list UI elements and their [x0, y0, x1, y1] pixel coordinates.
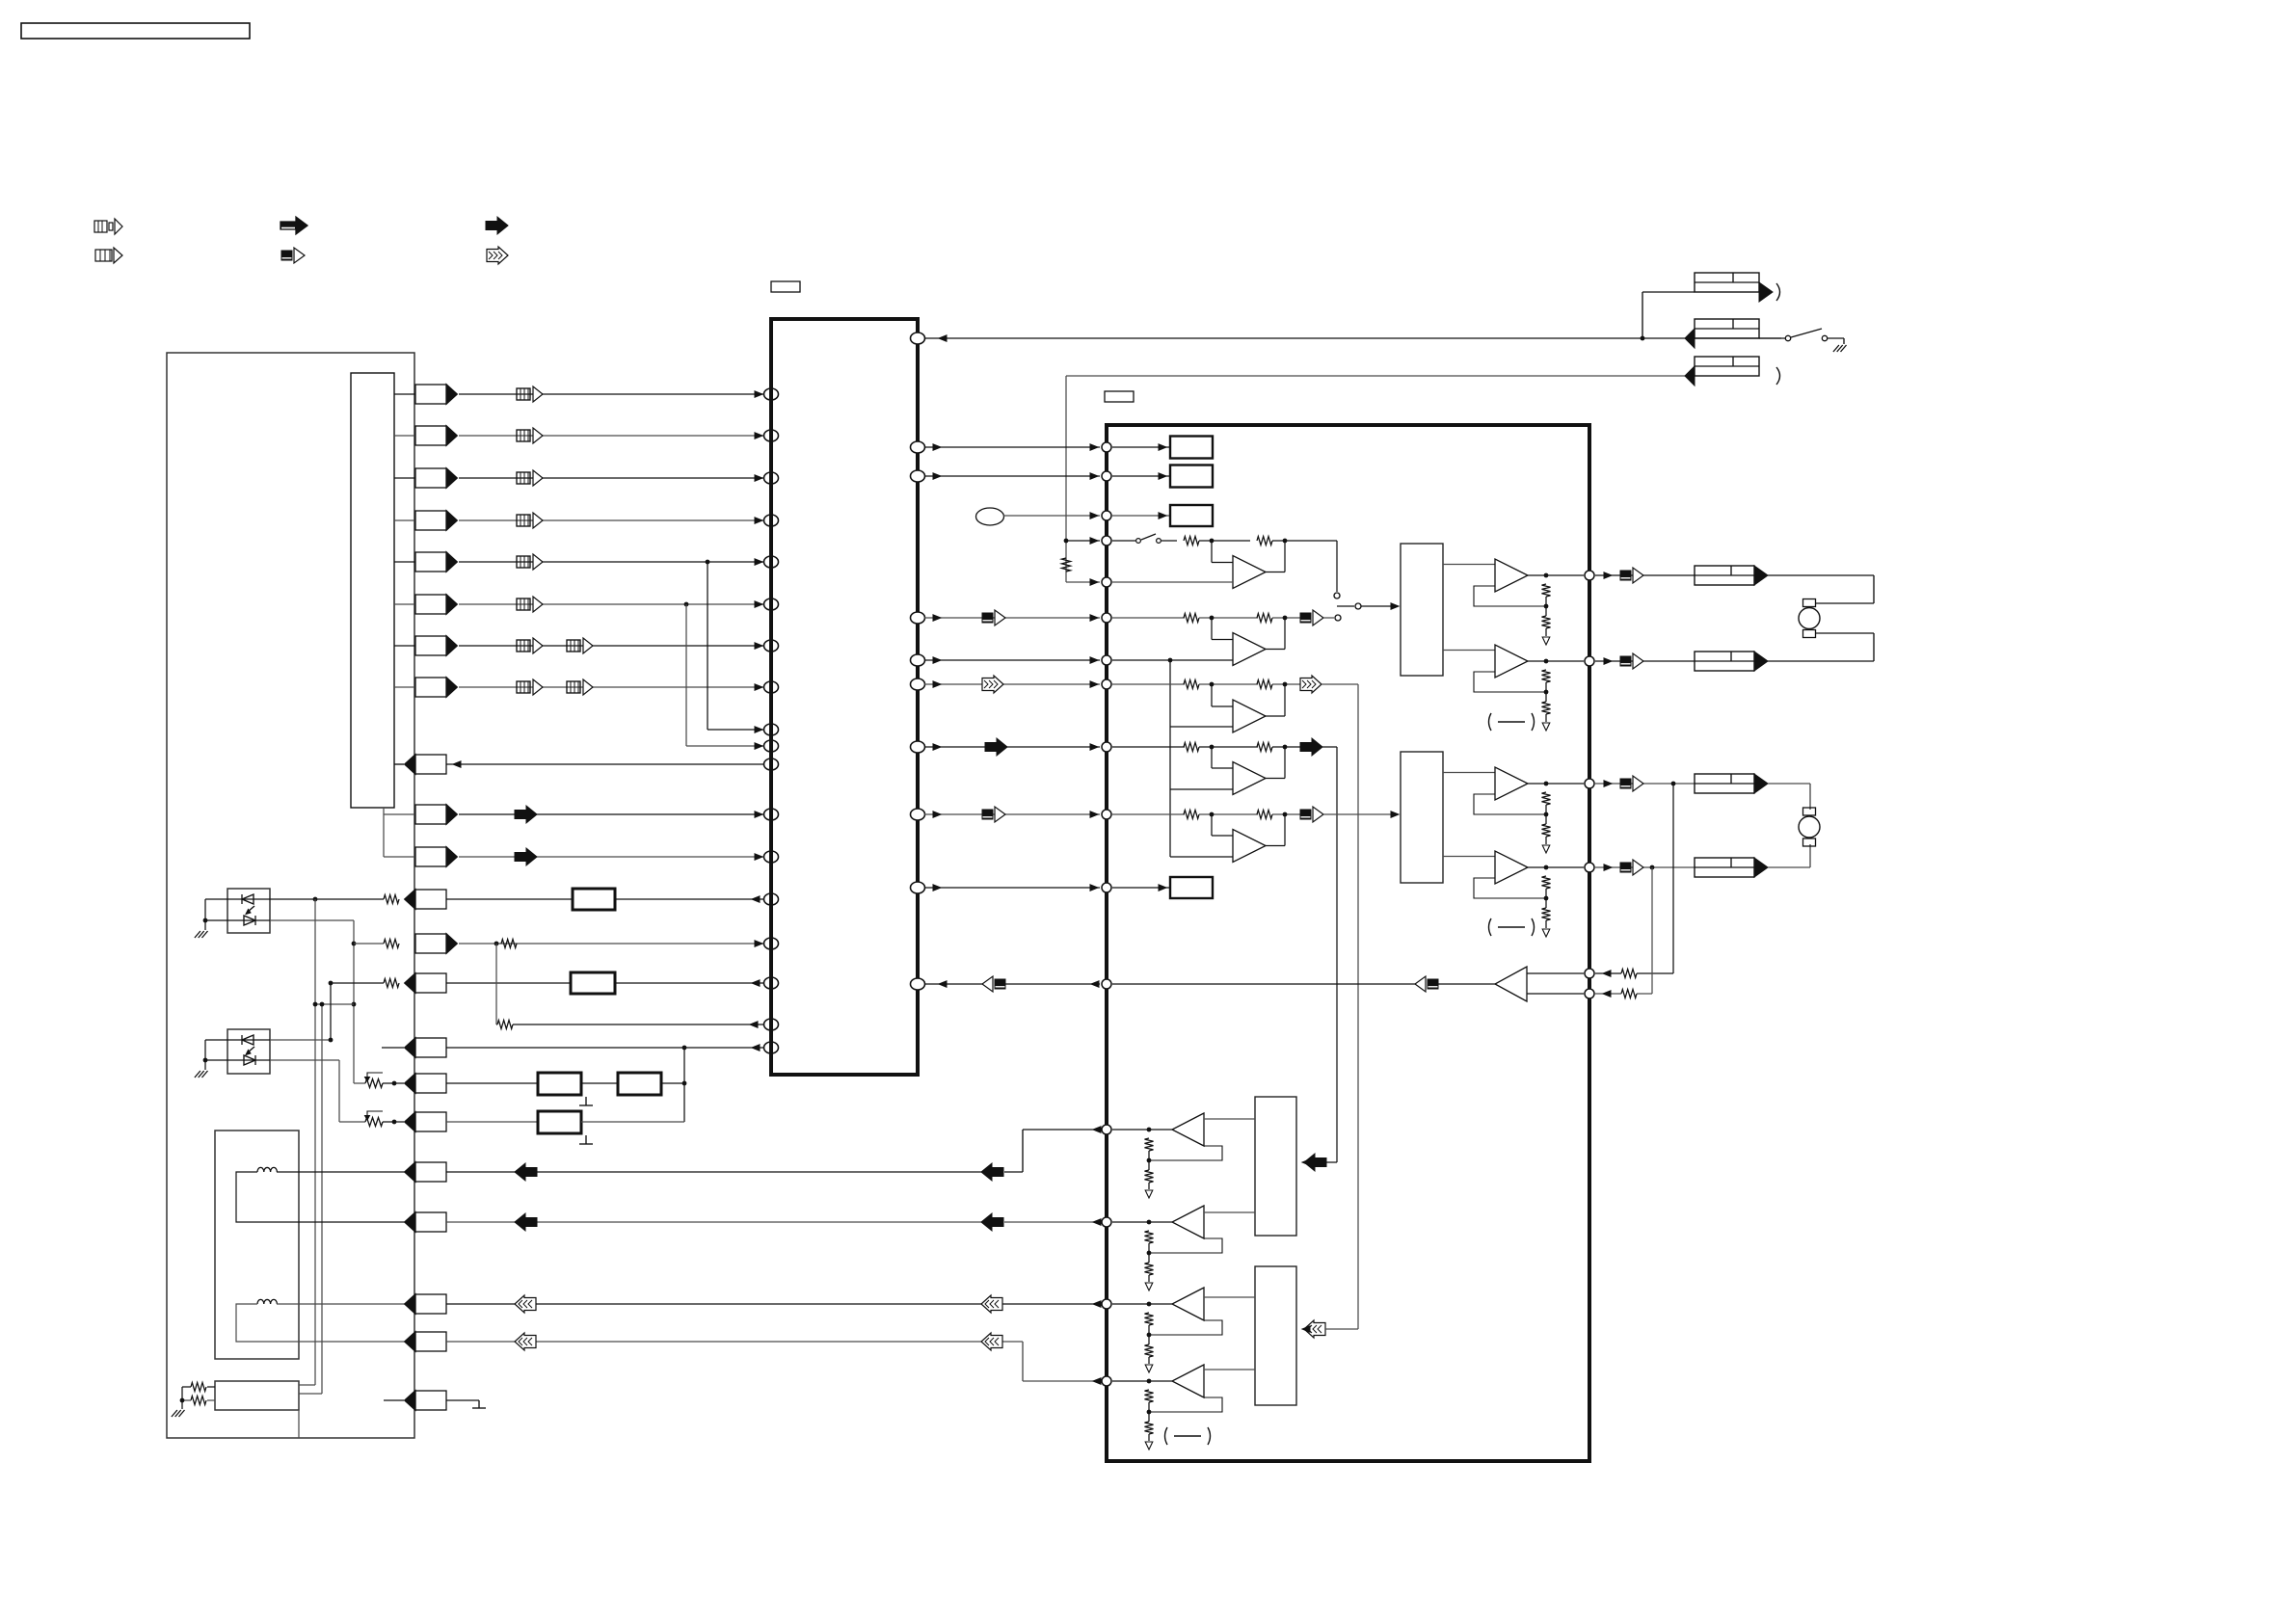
spindle-sled unit outline [215, 1131, 299, 1359]
IC601 right pin DAC [911, 809, 925, 820]
signal arrow cellD [1300, 738, 1322, 756]
wire U2B out [1528, 659, 1584, 664]
wire CN1 pin 5 stub [394, 561, 415, 563]
wire U4D out [1112, 1379, 1172, 1384]
contact node A1 [1334, 593, 1340, 599]
ground D2 [195, 1060, 208, 1078]
wire selC in [1302, 1159, 1337, 1165]
signal arrow (ribbon) row 4 [517, 513, 543, 528]
switch S1 [1759, 329, 1844, 341]
op-amp U1D [1212, 747, 1285, 795]
wire MC1 row [1003, 513, 1100, 519]
feedback loop U2D [1474, 878, 1546, 898]
wire PCM row [924, 744, 1100, 750]
jack J7 [1695, 858, 1768, 877]
legend outlined black arrow symbol [280, 217, 307, 234]
signal arrow (ribbon) row 8 [517, 679, 543, 695]
jack J3 (line) [1685, 357, 1780, 386]
IC601 left pin 15 [764, 938, 779, 949]
wire CN1 pin 6 stub [394, 603, 415, 605]
legend blackbox-arrow symbol [281, 248, 305, 263]
photo sensor D1 LED [242, 894, 254, 904]
wire U4B div [1147, 1243, 1152, 1263]
wire selA out1 [1443, 564, 1495, 566]
feedback loop U2A [1474, 586, 1546, 606]
block REG3 [1170, 505, 1213, 526]
wire BEEP to IC601 [1005, 983, 1100, 985]
resistor U4A fb [1145, 1138, 1154, 1151]
wire reset row stub [394, 763, 404, 765]
gnd arrow U2C [1542, 845, 1550, 853]
wire U4A out [1112, 1128, 1172, 1132]
coil L1 [257, 1167, 277, 1172]
IC602 ref label box [1105, 391, 1134, 402]
connector CN1 pin 3 box [415, 468, 458, 489]
wire cellE to sel2 [1323, 811, 1399, 817]
wire CN1 pin 4 to IC601 [459, 518, 764, 523]
op-amp U2C [1495, 767, 1528, 800]
resistor U4C fb [1145, 1313, 1154, 1325]
resistor U2D fb [1542, 876, 1551, 889]
op-amp U1A [1212, 541, 1285, 589]
wire U4C out [1112, 1302, 1172, 1307]
IC602 pin AOUT [1102, 679, 1111, 689]
reference label (bottom) [1165, 1427, 1211, 1445]
connector CN2 pin 2 box [415, 847, 458, 867]
resistor R204 [1184, 614, 1199, 623]
wire CN1 pin 7 to IC601 [459, 643, 764, 649]
resonator X101 [538, 1073, 581, 1095]
wire J4 to motor [1768, 575, 1874, 603]
wire cellC in [1112, 683, 1185, 685]
IC601 right pin CLK [911, 470, 925, 482]
wire U2A out [1528, 573, 1584, 578]
wire DAC row [924, 811, 1100, 817]
wire cellE mid [1199, 812, 1258, 817]
wire U2A div2 [1545, 628, 1547, 636]
IC602 pin PCM [1102, 742, 1111, 752]
wire D2 through bottom [227, 1059, 270, 1061]
wire CN1 pin 5 to IC601 [459, 559, 764, 565]
wire row 1063 [496, 944, 764, 1029]
wire D2 through top [227, 1039, 270, 1041]
wire U2C out [1528, 782, 1584, 786]
resistor R211 [1257, 811, 1272, 819]
wire U2C div2 [1545, 837, 1547, 844]
resistor U2C div [1542, 824, 1551, 837]
gnd arrow U2B [1542, 723, 1550, 731]
signal arrow motor2+ inner [981, 1213, 1003, 1231]
IC602 pin SW2 [1102, 577, 1111, 587]
wire D1 through bottom [227, 919, 270, 921]
wire D1 out bottom to bus [270, 920, 356, 1083]
junction trimmer 2 [392, 1120, 397, 1125]
resistor U2D div [1542, 908, 1551, 920]
wire row 1020 filter to connector [446, 982, 571, 984]
wire D1 anode [203, 899, 227, 922]
wire cellA row [1199, 539, 1250, 544]
wire U4B div2 [1148, 1275, 1150, 1282]
wire CN1 pin 3 stub [394, 477, 415, 479]
IC601 right pin BEEP [911, 978, 925, 990]
resistor R206 [1184, 680, 1199, 689]
wire row 979 to IC601 [459, 940, 764, 948]
resistor U4B fb [1145, 1231, 1154, 1243]
IC601 right pin AIN [911, 612, 925, 624]
signal arrow (ribbon) row 1 [517, 386, 543, 402]
signal arrow cellB [1300, 610, 1323, 625]
connector CN1 pin 4 box [415, 511, 458, 531]
IC601 left pin 16 [764, 977, 779, 989]
jack J1 (remote) [1695, 273, 1780, 302]
IC601 right pin MUTE [911, 882, 925, 893]
wire cellE in [1112, 813, 1185, 815]
wire OUT4 to jack [1595, 865, 1695, 870]
signal arrow motor3 inner [981, 1295, 1002, 1313]
signal arrow OUT2 [1620, 653, 1643, 669]
IC602 pin OUT1 [1585, 571, 1594, 580]
mechanism unit bottom edge link [0, 0, 1, 1]
op-amp U4C [1172, 1288, 1204, 1320]
signal arrow OUT3 [1620, 776, 1643, 791]
wire VREF inside [1112, 658, 1233, 663]
wire reset row from IC601 [446, 761, 764, 767]
connector CN1 body [351, 373, 394, 808]
connector CN1 pin 7 box [415, 636, 458, 656]
gnd arrow U2A [1542, 637, 1550, 645]
wire VREF row [924, 657, 1100, 663]
IC602 pin U4B [1102, 1217, 1111, 1227]
wire row 1453 stub [384, 1399, 404, 1401]
feedback loop U4C [1149, 1320, 1222, 1335]
wire U4D top in [1204, 1369, 1255, 1370]
block REG4 [1170, 877, 1213, 898]
wire U4C div [1147, 1325, 1152, 1344]
wire trimmer 1 junction [383, 1082, 404, 1084]
motor M1 [1799, 599, 1820, 638]
wire row 1124 link [581, 1082, 618, 1084]
connector CN1 pin AUX box [405, 1038, 447, 1058]
connector CN1 pin 8 box [415, 678, 458, 698]
wire MIC inside [1112, 513, 1170, 519]
junction node row5 [706, 560, 710, 565]
photo sensor D1 arrow mark [246, 906, 254, 915]
wire cellD out [1272, 745, 1300, 750]
resistor R205 [1257, 614, 1272, 623]
IC601 right pin VREF [911, 654, 925, 666]
legend striped-arrow symbol 2 [95, 248, 122, 263]
resistor R105 [182, 1397, 215, 1405]
IC602 pin REG1 [1102, 442, 1111, 452]
wire cellB in [1112, 617, 1185, 619]
IC601 right pin AOUT [911, 678, 925, 690]
wire sensor bus hook [384, 808, 415, 857]
resistor U2B fb [1542, 670, 1551, 682]
IC602 pin OUT4 [1585, 863, 1594, 872]
signal arrow AOUT [982, 676, 1003, 693]
connector CN1 trim 2 box [405, 1112, 447, 1132]
connector CN1 pin 2 box [415, 426, 458, 446]
wire U4B out [1112, 1220, 1172, 1225]
wire D2 out bottom to bus [270, 1060, 339, 1122]
wire row604 inside [1112, 581, 1233, 583]
legend chevron arrow symbol [487, 247, 508, 264]
selector SW-C body [1255, 1097, 1296, 1236]
resistor U2A fb [1542, 584, 1551, 597]
wire row561 [1066, 538, 1100, 544]
wire D2 cathode [205, 1059, 227, 1061]
IC601 left pin 14 [764, 893, 779, 905]
IC602 pin U4D [1102, 1376, 1111, 1386]
IC602 pin AIN [1102, 613, 1111, 623]
IC601 left pin 2 [764, 430, 779, 441]
wire cellC riser [1322, 684, 1358, 1329]
IC602 pin DAC [1102, 810, 1111, 819]
wire U2D div2 [1545, 920, 1547, 928]
wire J5 to motor [1768, 633, 1874, 661]
IC601 body [771, 319, 918, 1075]
wire BEEP mid [1091, 981, 1415, 987]
wire row604 [1066, 579, 1100, 585]
mechanism unit outline [167, 353, 414, 1438]
resistor R210 [1184, 811, 1199, 819]
signal arrow solid small row 845 [515, 806, 537, 823]
block REG1 [1170, 437, 1213, 459]
wire cellB out [1272, 616, 1300, 621]
wire switch bottom [298, 1410, 300, 1438]
IC601 left pin 3 [764, 472, 779, 484]
jack J4 [1695, 566, 1768, 585]
wire selB out2 [1443, 856, 1495, 858]
junction trimmer 1 [392, 1081, 397, 1086]
connector CN3 pin2 box [405, 1212, 447, 1233]
photo sensor D2 photodiode [244, 1055, 255, 1065]
wire REG1 inside [1112, 444, 1170, 450]
filter CF102 [571, 972, 615, 994]
resistor U2B div [1542, 702, 1551, 714]
wire cellD mid [1199, 745, 1258, 750]
wire CN2 pin 1 to IC601 [459, 811, 764, 817]
trimmer VR2 [365, 1111, 384, 1127]
resonator X102 [618, 1073, 661, 1095]
signal arrow (ribbon) row 3 [517, 470, 543, 486]
motor M2 [1799, 808, 1820, 846]
gnd arrow U4D [1145, 1442, 1153, 1450]
resistor U4D fb [1145, 1390, 1154, 1402]
switch S3 pole [1337, 603, 1399, 609]
IC601 ref label box [771, 281, 800, 292]
wire VREF ladder [1170, 660, 1233, 857]
wire CN1 pin 6 to IC601 [459, 601, 764, 607]
connector CN1 trim 1 box [405, 1074, 447, 1094]
wire cellE out [1272, 812, 1300, 817]
wire cellD riser [1322, 747, 1337, 1162]
IC602 amplifier body [1107, 425, 1589, 1461]
IC601 left pin 5 [764, 556, 779, 568]
wire cellA out [1272, 539, 1337, 592]
op-amp U2D [1495, 851, 1528, 884]
legend striped-arrow symbol 1 [94, 219, 122, 234]
wire U4A div [1147, 1151, 1152, 1170]
connector CN1 pin TE box [415, 934, 458, 954]
wire OUT3 to jack [1595, 781, 1695, 786]
signal arrow OUT1 [1620, 568, 1643, 583]
connector CN1 pin 1 box [415, 385, 458, 405]
trimmer VR1 [365, 1073, 384, 1088]
reference label (lower) [1489, 918, 1535, 936]
resistor R213 [1621, 990, 1637, 998]
connector CN1 pin FE box [405, 890, 447, 910]
wire J6 to motor [1768, 784, 1810, 810]
resonator X103 gnd stub [579, 1135, 593, 1144]
IC601 left pin 18 [764, 1042, 779, 1053]
feedback loop U4B [1149, 1238, 1222, 1253]
wire CN1 pin 4 stub [394, 519, 415, 521]
IC602 pin BEEP [1102, 979, 1111, 989]
signal arrow motor1+ inner [981, 1163, 1003, 1181]
signal arrow cellC [1300, 676, 1322, 693]
bus wire v2 [313, 1002, 354, 1394]
ground switch block [172, 1410, 185, 1417]
wire cellC out [1272, 682, 1300, 687]
wire sense1 [1637, 784, 1673, 973]
junction node row6 [684, 602, 689, 607]
bus wire v3 [330, 983, 332, 1040]
wire L2 top [277, 1303, 415, 1305]
signal arrow OUT4 [1620, 860, 1643, 875]
IC602 pin U4A [1102, 1125, 1111, 1134]
resistor U4C div [1145, 1344, 1154, 1357]
wire OUT1 to jack [1595, 572, 1695, 578]
wire MUTE row [924, 885, 1100, 891]
wire U3 out [1438, 983, 1495, 985]
block REG2 [1170, 466, 1213, 488]
wire CN1 pin 2 to IC601 [459, 433, 764, 439]
signal arrow (ribbon) row 7 second [567, 638, 593, 653]
wire v1106 [1064, 376, 1069, 582]
wire row 1020 from IC601 [615, 980, 764, 986]
IC602 pin MIC [1102, 511, 1111, 520]
wire D2 anode [203, 1040, 227, 1062]
wire sense2 [1637, 867, 1652, 994]
wire row6 jog down [686, 604, 764, 749]
IC602 pin U4C [1102, 1299, 1111, 1309]
jack J2 (hold sw) [1685, 319, 1759, 348]
op-amp U4D [1172, 1365, 1204, 1397]
wire switch gnd [180, 1387, 185, 1409]
wire BEEP end [924, 981, 982, 987]
resistor R201 [1062, 558, 1071, 572]
op-amp U4B [1172, 1206, 1204, 1238]
connector CN2 pin 1 box [415, 805, 458, 825]
gnd arrow U4C [1145, 1365, 1153, 1372]
wire switch out2 [299, 1393, 322, 1395]
signal arrow BEEP [982, 976, 1005, 992]
ground D1 [195, 920, 208, 938]
gnd arrow U4A [1145, 1190, 1153, 1198]
wire CN1 pin 8 to IC601 [459, 684, 764, 690]
wire CN2 pin 2 to IC601 [459, 854, 764, 860]
resistor U2C fb [1542, 792, 1551, 805]
filter CF101 [573, 889, 615, 910]
IC601 left pin 10 [764, 740, 779, 752]
wire sense1 in [1595, 971, 1621, 976]
wire MUTE inside [1112, 885, 1170, 891]
IC601 left pin 1 [764, 388, 779, 400]
op-amp U1E [1212, 814, 1285, 863]
wire motor drive 1 [446, 1127, 1101, 1181]
IC602 pin FB1 [1585, 969, 1594, 978]
wire row 1124 out [661, 1081, 686, 1086]
IC601 left pin 9 [764, 724, 779, 735]
wire XRST row [924, 335, 1781, 341]
photo sensor D2 arrow mark [246, 1047, 254, 1055]
IC602 pin MUTE [1102, 883, 1111, 892]
wire motor drive 3 [446, 1295, 1101, 1313]
resistor U2A div [1542, 616, 1551, 628]
wire row 933 to filter [446, 898, 573, 900]
signal arrow cellE [1300, 807, 1323, 822]
gnd arrow U4B [1145, 1283, 1153, 1290]
signal arrow AIN [982, 610, 1005, 625]
connector CN4 box [405, 1391, 447, 1411]
wire switch out1 [299, 1384, 315, 1386]
wire U4A div2 [1148, 1183, 1150, 1189]
wire row5 jog down [707, 562, 764, 732]
IC601 left pin 7 [764, 640, 779, 652]
wire U2A div [1544, 597, 1549, 616]
legend solid arrow symbol [486, 217, 508, 234]
wire U4C top in [1204, 1296, 1255, 1298]
feedback loop U2C [1474, 794, 1546, 814]
feedback loop U4D [1149, 1397, 1222, 1412]
reference label (upper) [1489, 713, 1535, 731]
contact node B1 [1323, 615, 1341, 621]
wire cellB mid [1199, 616, 1258, 621]
wire D1 out top [270, 897, 384, 902]
connector CN3 pin4 box [405, 1332, 447, 1352]
wire cellD in [1112, 746, 1185, 748]
IC602 pin REG2 [1102, 471, 1111, 481]
IC602 pin VREF [1102, 655, 1111, 665]
signal arrow BEEP inner [1415, 976, 1438, 992]
op-amp U2B [1495, 645, 1528, 678]
resistor U4B div [1145, 1263, 1154, 1275]
wire D1 cathode [205, 919, 227, 921]
resistor R202 [1184, 537, 1199, 545]
wire U2B div [1544, 682, 1549, 702]
wire AIN row [924, 615, 1100, 621]
wire OUT2 to jack [1595, 658, 1695, 664]
photo sensor D2 LED [242, 1035, 254, 1045]
resistor R203 [1257, 537, 1272, 545]
IC601 left pin 4 [764, 515, 779, 526]
title box [21, 23, 250, 39]
wire selB out1 [1443, 772, 1495, 774]
connector CN3 pin3 box [405, 1294, 447, 1315]
selector SW-A body [1401, 544, 1443, 676]
wire CN1 pin 3 to IC601 [459, 475, 764, 481]
resistor R208 [1184, 743, 1199, 752]
resistor R102 [354, 940, 399, 948]
signal arrow motor4 inner [981, 1333, 1002, 1350]
wire D2 out top to bus [270, 1038, 333, 1043]
wire REG1 row [924, 444, 1100, 450]
wire U4C div2 [1148, 1357, 1150, 1364]
connector CN1 pin 6 box [415, 595, 458, 615]
op-amp U2A [1495, 559, 1528, 592]
wire motor drive 4 [446, 1333, 1101, 1384]
